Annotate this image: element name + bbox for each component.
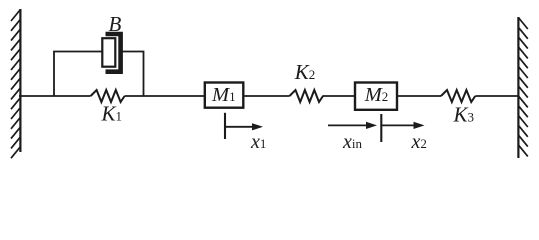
svg-text:x2: x2	[411, 131, 427, 153]
svg-text:K2: K2	[294, 60, 316, 84]
svg-text:K1: K1	[101, 102, 123, 126]
svg-text:K3: K3	[453, 103, 475, 127]
svg-text:B: B	[109, 12, 122, 36]
svg-text:x1: x1	[250, 131, 266, 153]
svg-text:xin: xin	[342, 131, 363, 153]
